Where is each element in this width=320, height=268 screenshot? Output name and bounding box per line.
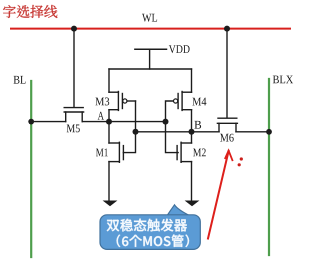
red ink dot 1	[240, 157, 243, 160]
wire: VDD stem	[149, 49, 151, 69]
callout text line 2: （6个MOS管）	[117, 235, 189, 248]
red annotation arrow shaft	[208, 151, 229, 239]
red ink dot 2	[238, 163, 241, 166]
ground of M1 (arrow symbol)	[103, 201, 118, 207]
label VDD	[169, 45, 190, 53]
wire: gate line down to M2 gate	[166, 122, 179, 153]
node B wire	[136, 131, 192, 133]
node A wire across to M4/M2 gate line	[109, 121, 166, 123]
bit line BL (green vertical wire)	[30, 81, 32, 257]
VDD supply tick bar	[135, 48, 167, 50]
label M5	[67, 125, 80, 133]
wire: node B to M6 source	[192, 131, 220, 133]
label A	[98, 112, 104, 120]
transistor M1 (NMOS pull-down, left)	[109, 122, 123, 201]
label M4	[192, 98, 206, 106]
label M6	[220, 134, 234, 142]
title label: 字选择线 (word-select line, red)	[3, 5, 57, 18]
junction dot: BL tap	[28, 119, 34, 125]
wire: gate line down to M1 gate	[123, 132, 135, 153]
label M3	[95, 98, 109, 106]
label B	[194, 121, 201, 129]
wire: M4 bubble to node A gate line	[166, 101, 174, 122]
callout text line 1: 双稳态触发器	[107, 219, 187, 232]
wire: M3 bubble to inverter-2 input line	[127, 100, 136, 102]
label WL	[142, 14, 157, 22]
ground of M2 (arrow symbol)	[185, 201, 200, 207]
callout box: bistable flip-flop (6 MOS)	[100, 215, 200, 250]
transistor M5 (NMOS access, horizontal)	[64, 108, 83, 122]
junction dot: node A	[106, 119, 112, 125]
wire: M3 bubble line down to node B	[135, 101, 137, 132]
wire: M6 drain to BLX	[236, 131, 269, 133]
callout tail (speech pointer)	[167, 205, 191, 217]
label BL	[14, 76, 26, 84]
wire: BL to M5 source	[31, 121, 65, 123]
transistor M3 (PMOS pull-up, left)	[109, 69, 122, 122]
wire: VDD rail to M3/M4 sources	[109, 68, 192, 70]
label BLX	[273, 76, 293, 84]
junction dot: WL / M6 gate	[224, 26, 230, 32]
transistor M2 (NMOS pull-down, right)	[177, 132, 191, 201]
wire: WL down to M5 gate	[73, 29, 75, 107]
wire: M5 drain to node A	[82, 121, 109, 123]
red arrowhead	[225, 151, 232, 161]
M3 gate bubble	[123, 99, 127, 103]
junction dot: node A / gate line of M4,M2	[163, 119, 169, 125]
label M2	[193, 149, 206, 157]
junction dot: node B	[189, 129, 195, 135]
junction dot: WL / M5 gate	[71, 26, 77, 32]
M4 gate bubble	[174, 99, 178, 103]
label M1	[96, 149, 108, 157]
transistor M4 (PMOS pull-up, right)	[178, 69, 191, 132]
word line WL (red horizontal wire)	[11, 28, 290, 30]
junction dot: node B / gate line of M3,M1	[133, 129, 139, 135]
wire: WL down to M6 gate	[226, 29, 228, 118]
transistor M6 (NMOS access, horizontal right)	[217, 118, 237, 132]
junction dot: BLX tap	[266, 129, 272, 135]
bit line BLX (green vertical wire)	[268, 79, 270, 255]
